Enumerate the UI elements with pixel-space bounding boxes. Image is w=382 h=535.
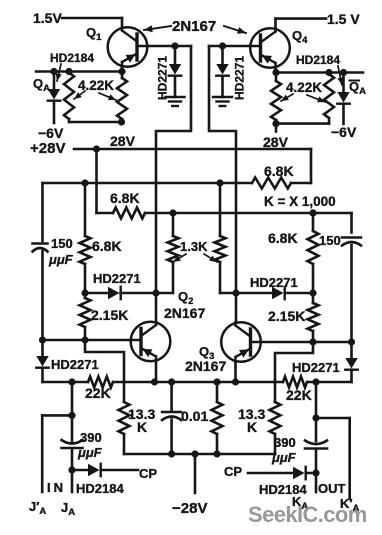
svg-text:28V: 28V (263, 134, 289, 150)
svg-text:μμF: μμF (48, 252, 74, 267)
svg-text:0.01: 0.01 (181, 408, 208, 424)
svg-text:−6V: −6V (331, 124, 357, 140)
svg-text:−28V: −28V (172, 500, 207, 517)
svg-text:μμF: μμF (77, 445, 103, 460)
svg-text:HD2271: HD2271 (250, 275, 298, 290)
svg-text:6.8K: 6.8K (110, 190, 140, 206)
svg-text:HD2184: HD2184 (50, 51, 94, 65)
svg-text:22K: 22K (85, 385, 111, 401)
svg-text:6.8K: 6.8K (264, 163, 294, 179)
svg-text:6.8K: 6.8K (92, 238, 122, 254)
svg-text:HD2271: HD2271 (233, 56, 247, 100)
svg-text:22K: 22K (286, 387, 312, 403)
svg-text:K = X 1,000: K = X 1,000 (264, 194, 336, 209)
svg-text:HD2271: HD2271 (93, 271, 141, 286)
svg-text:CP: CP (139, 466, 157, 481)
svg-text:K: K (247, 419, 257, 435)
svg-text:SeekIC.com: SeekIC.com (248, 502, 367, 527)
svg-text:4.22K: 4.22K (78, 78, 114, 93)
svg-text:2N167: 2N167 (185, 358, 226, 374)
svg-text:K: K (137, 419, 147, 435)
svg-text:−6V: −6V (38, 125, 64, 141)
svg-text:OUT: OUT (318, 481, 346, 496)
svg-text:2.15K: 2.15K (268, 308, 305, 324)
svg-text:HD2271: HD2271 (51, 357, 99, 372)
svg-text:HD2184: HD2184 (296, 53, 340, 67)
svg-text:HD2271: HD2271 (156, 56, 170, 100)
svg-text:6.8K: 6.8K (268, 230, 298, 246)
svg-text:1.5V: 1.5V (33, 10, 62, 26)
svg-text:4.22K: 4.22K (286, 80, 322, 95)
svg-text:390: 390 (80, 430, 102, 445)
svg-text:150: 150 (51, 236, 73, 251)
svg-text:HD2271: HD2271 (292, 360, 340, 375)
svg-text:2.15K: 2.15K (91, 307, 128, 323)
svg-text:2N167: 2N167 (164, 305, 205, 321)
svg-text:HD2184: HD2184 (76, 481, 124, 496)
svg-text:IN: IN (47, 480, 66, 495)
svg-text:+28V: +28V (30, 140, 65, 157)
svg-text:1.5 V: 1.5 V (327, 11, 360, 27)
svg-text:28V: 28V (110, 133, 136, 149)
svg-text:150: 150 (319, 233, 341, 248)
svg-text:μμF: μμF (271, 450, 297, 465)
svg-text:1.3K: 1.3K (180, 239, 208, 254)
svg-text:2N167: 2N167 (172, 18, 216, 35)
svg-text:390: 390 (274, 435, 296, 450)
svg-text:CP: CP (224, 464, 242, 479)
